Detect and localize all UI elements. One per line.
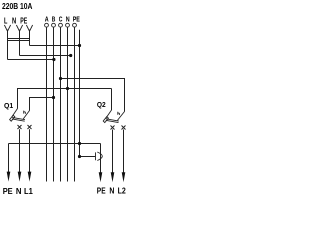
label Q1 — [3, 110, 11, 113]
breaker Q1 pole1 contact cross — [18, 125, 22, 129]
arrow L1 output1 — [28, 172, 32, 182]
wire PE output1 vertical — [8, 144, 10, 174]
svg-text:220B 10A: 220B 10A — [2, 1, 32, 11]
wire PE bus X vertical — [79, 30, 81, 157]
wire PE distribution horizontal — [9, 143, 101, 145]
breaker Q1 pole1 release parallelogram — [10, 115, 15, 121]
wire jumper upper horizontal — [8, 38, 30, 40]
breaker Q1 latch — [24, 111, 26, 114]
breaker Q2 — [103, 110, 125, 130]
arrow N output1 — [18, 172, 22, 182]
wire Q2 output1 vertical — [112, 130, 114, 175]
svg-text:N: N — [109, 186, 114, 195]
wire column A vertical — [46, 27, 48, 181]
breaker Q1 pole2 contact cross — [28, 125, 32, 129]
svg-text:C: C — [59, 14, 63, 23]
terminal circle A — [45, 23, 49, 27]
wire L to B column horizontal — [8, 59, 54, 61]
junction dot B column upper — [52, 58, 55, 61]
junction dot X bus top — [78, 44, 81, 47]
arrow L2 output2 — [122, 172, 126, 182]
wire Q1 pole2 feed — [30, 98, 54, 111]
wire column C vertical — [60, 27, 62, 181]
wire PE stem vertical — [29, 30, 31, 46]
wire L stem vertical — [7, 30, 9, 60]
wire N stem vertical — [19, 30, 21, 56]
svg-text:L: L — [4, 17, 7, 26]
wire PE output2 vertical — [100, 144, 102, 175]
breaker Q2 pole2 blade — [117, 112, 124, 121]
svg-text:PE: PE — [73, 14, 80, 23]
plug pin PE fork — [26, 25, 32, 31]
terminal circle N — [66, 23, 70, 27]
breaker Q1 pole2 blade — [23, 111, 29, 120]
breaker Q2 pole1 blade — [106, 110, 112, 119]
breaker Q2 pole1 contact cross — [111, 126, 115, 130]
svg-text:L2: L2 — [118, 186, 127, 195]
wire Q2 pole1 feed vertical — [111, 89, 113, 111]
breaker Q2 linkage bar — [106, 119, 119, 123]
svg-text:B: B — [52, 14, 56, 23]
breaker Q1 — [10, 109, 32, 130]
junction dot C column — [59, 77, 62, 80]
arrow PE output2 — [99, 172, 103, 182]
wire column B vertical — [53, 27, 55, 181]
terminal circle PE — [73, 23, 77, 27]
svg-text:PE: PE — [20, 17, 27, 26]
breaker Q2 latch — [118, 112, 120, 115]
wire column PE vertical — [74, 27, 76, 181]
wire C to Q2 pole2 feed — [61, 79, 125, 112]
junction dot X bus earth stub — [78, 155, 81, 158]
breaker Q1 linkage bar — [12, 117, 25, 121]
wire Q1 output1 vertical — [19, 129, 21, 173]
svg-text:L1: L1 — [24, 186, 33, 196]
svg-text:PE: PE — [97, 186, 106, 195]
svg-text:N: N — [16, 186, 22, 196]
junction dot N stub end — [69, 54, 72, 57]
wire Q1 output2 vertical — [29, 129, 31, 173]
wire earth stub horizontal — [80, 156, 96, 158]
arrow N output2 — [111, 172, 115, 182]
svg-text:Q2: Q2 — [97, 100, 106, 109]
wire Q2 output2 vertical — [123, 130, 125, 175]
wire jumper lower horizontal — [8, 40, 30, 42]
wire Q1 pole1 feed — [18, 89, 112, 109]
svg-text:N: N — [12, 17, 16, 26]
junction dot B column lower — [52, 96, 55, 99]
breaker Q2 pole2 contact cross — [122, 126, 126, 130]
svg-text:A: A — [45, 14, 49, 23]
junction dot N column lower — [66, 87, 69, 90]
arrow PE output1 — [7, 172, 11, 182]
svg-text:PE: PE — [3, 186, 13, 196]
svg-text:N: N — [66, 14, 70, 23]
junction dot X bus PE distribution — [78, 142, 81, 145]
breaker Q2 pole1 release parallelogram — [103, 117, 108, 123]
svg-text:Q1: Q1 — [4, 101, 14, 110]
breaker Q1 pole1 blade — [12, 109, 18, 118]
earth socket symbol — [96, 152, 103, 161]
terminal circle B — [52, 23, 56, 27]
terminal circle C — [59, 23, 63, 27]
wire N stub horizontal — [20, 55, 71, 57]
wire column N vertical — [67, 27, 69, 181]
plug pin N fork — [16, 25, 22, 31]
wire PE to X bus horizontal — [30, 45, 80, 47]
plug pin L fork — [4, 25, 10, 31]
